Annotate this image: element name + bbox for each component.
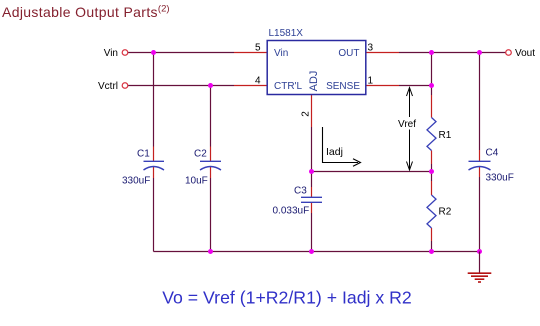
Iadj current arrow [323,127,361,166]
svg-text:330uF: 330uF [122,176,150,187]
capacitor C3 [273,186,323,217]
svg-text:ADJ: ADJ [308,71,320,92]
wire ADJ net vertical [311,127,313,172]
svg-text:2: 2 [301,111,312,117]
wire C4 vertical branch [479,53,481,252]
pin 1 stub (red) [366,85,399,87]
capacitor C1 [122,149,164,187]
svg-text:SENSE: SENSE [326,81,360,92]
svg-text:Vin: Vin [274,48,288,59]
terminal Vout [506,48,536,59]
pin 4 stub (red) [234,85,267,87]
wire OUT net to Vout [399,52,506,54]
svg-text:Vref: Vref [398,119,416,130]
resistor R1 [427,118,452,151]
svg-text:Vctrl: Vctrl [98,81,118,92]
op-amp U1 L1581X box [267,28,366,95]
svg-text:C2: C2 [194,149,207,160]
pin 3 stub (red) [366,52,399,54]
resistor R2 [427,195,452,228]
svg-text:Adjustable Output Parts(2): Adjustable Output Parts(2) [2,3,170,20]
wire R1/R2 vertical branch [431,53,433,252]
svg-text:R2: R2 [439,207,452,218]
svg-text:Vo = Vref (1+R2/R1) + Iadj x R: Vo = Vref (1+R2/R1) + Iadj x R2 [162,287,412,307]
wire left vertical C1 branch [153,53,155,252]
svg-text:Vout: Vout [515,48,535,59]
wire C3 branch vertical [311,172,313,252]
svg-text:CTR'L: CTR'L [274,81,302,92]
svg-text:Iadj: Iadj [326,146,343,158]
pin 5 stub (red) [234,52,267,54]
wire Vin net horizontal [128,52,234,54]
svg-text:330uF: 330uF [486,173,514,184]
svg-text:C1: C1 [137,149,150,160]
svg-text:R1: R1 [439,130,452,141]
wire SENSE net [399,85,432,87]
terminal Vctrl [98,81,128,92]
capacitor C4 [469,147,514,183]
svg-text:C4: C4 [486,147,499,158]
terminal Vin [104,48,128,59]
svg-text:1: 1 [368,76,374,87]
svg-text:C3: C3 [294,186,307,197]
svg-text:3: 3 [368,43,374,54]
node junction dots [151,50,482,254]
title: Adjustable Output Parts(2) [2,3,170,20]
svg-text:OUT: OUT [338,48,359,59]
pin 2 stub (red) [311,95,313,128]
wire bottom ground rail [154,251,480,253]
ground [468,252,492,283]
svg-text:5: 5 [255,43,261,54]
wire C2 vertical branch [210,86,212,252]
Vref dimension arrow [398,88,416,171]
svg-text:4: 4 [255,76,261,87]
svg-text:Vin: Vin [104,48,118,59]
svg-text:0.033uF: 0.033uF [273,206,310,217]
capacitor C2 [185,149,221,187]
wire ADJ net horizontal [312,171,432,173]
wire Vctrl net horizontal [128,85,234,87]
svg-text:L1581X: L1581X [269,28,304,39]
svg-text:10uF: 10uF [185,176,208,187]
